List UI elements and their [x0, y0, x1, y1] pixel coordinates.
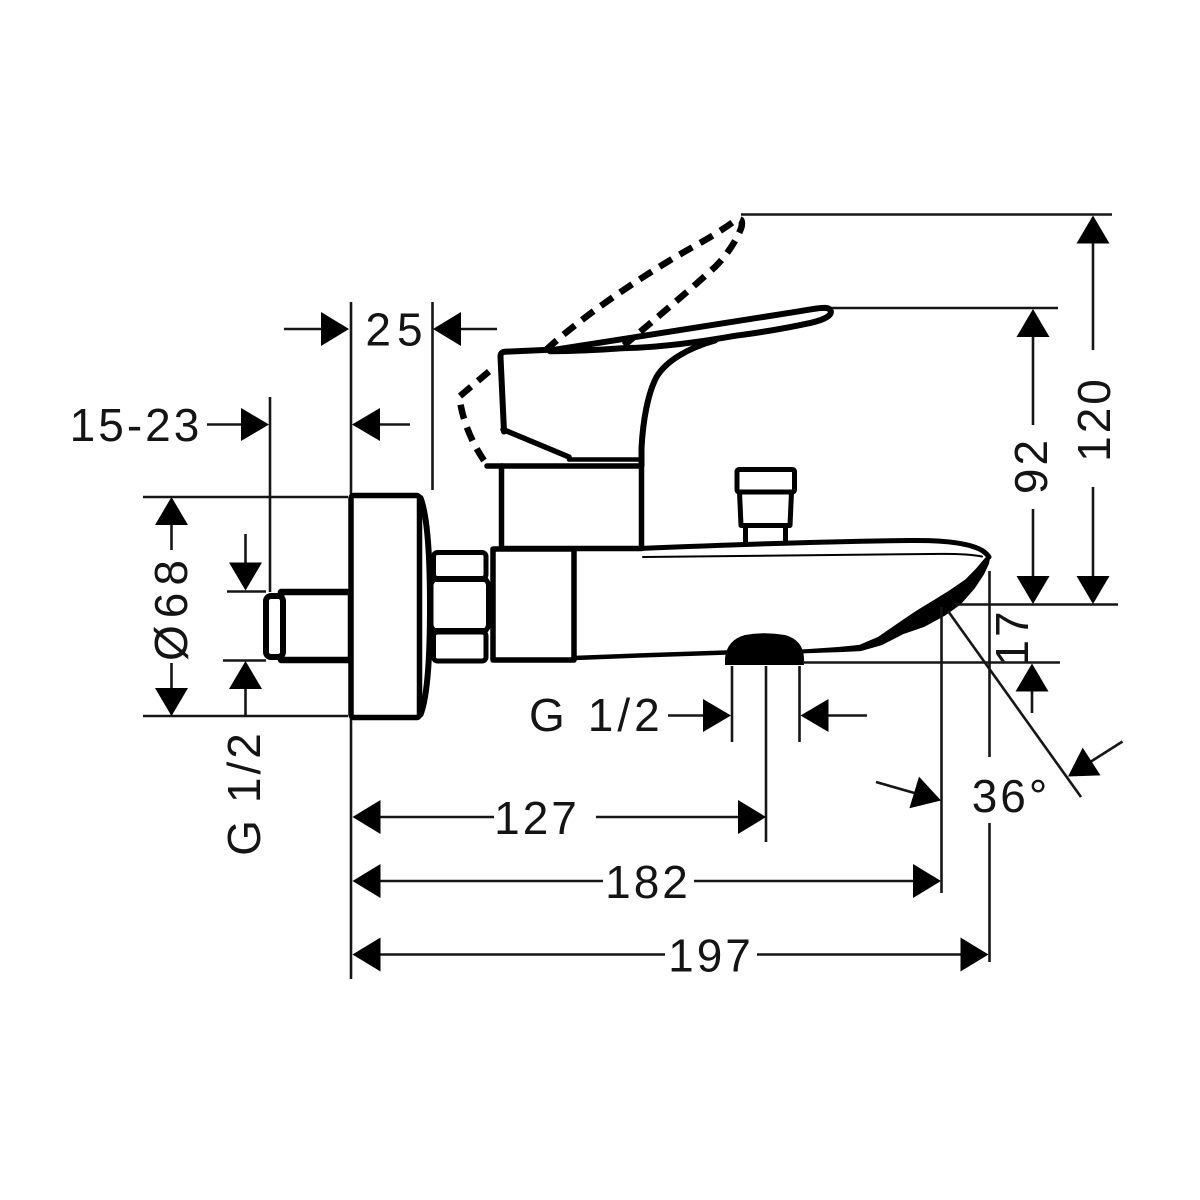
tip-related thin lines — [668, 571, 1123, 962]
arrow 120 bottom — [1077, 576, 1110, 604]
dia68 dimension line segments — [170, 499, 173, 714]
dim 197 line segments — [379, 953, 962, 956]
G12 nipple dimension segments — [244, 534, 247, 716]
faucet drawing group — [266, 219, 990, 717]
dim 92 line segments — [1032, 335, 1035, 578]
union nut top band — [434, 553, 487, 579]
svg-text:G1/2: G1/2 — [218, 730, 270, 856]
wall plane extension line — [350, 302, 353, 979]
G12 aerator dim tails — [668, 714, 867, 717]
raised handle dashed outline — [546, 219, 742, 350]
arrow 127 left — [353, 800, 381, 834]
svg-text:Ø68: Ø68 — [145, 553, 197, 661]
raised handle rear dashed outline — [460, 372, 490, 461]
dim 15-23 tails — [207, 423, 410, 426]
arrow G12 aerator right — [801, 699, 829, 732]
diverter knob mid section — [740, 492, 792, 526]
dim 17 tail — [1031, 690, 1034, 713]
spout bottom reference line y604 — [955, 603, 1118, 606]
svg-text:17: 17 — [986, 608, 1038, 665]
arrow 197 right — [961, 938, 989, 972]
svg-text:15-23: 15-23 — [70, 399, 203, 451]
dim 120 top extension line — [741, 213, 1112, 216]
dim 127 line segments — [379, 816, 740, 819]
svg-text:G1/2: G1/2 — [529, 689, 664, 741]
wall escutcheon flange — [351, 496, 420, 718]
arrow 182 right — [913, 864, 941, 898]
union nut divider lines — [434, 580, 486, 631]
arrow 15-23 left — [241, 408, 269, 441]
svg-text:120: 120 — [1068, 376, 1120, 462]
cartridge collar line — [569, 457, 638, 462]
valve body block — [502, 466, 642, 549]
dim 182 right extension line — [940, 607, 943, 893]
dim 25 tails — [284, 328, 497, 331]
aerator blob — [725, 633, 804, 665]
arrow 25 right — [433, 312, 461, 346]
flange front extension line — [431, 302, 434, 490]
escutcheon slide extension line — [269, 397, 272, 592]
svg-text:197: 197 — [668, 930, 754, 982]
arrow G12 nipple bottom — [229, 661, 262, 689]
arrow dia68 bottom — [155, 688, 188, 716]
dia68 bottom extension line — [143, 715, 348, 718]
union nut middle band — [431, 579, 489, 632]
arrow 92 top — [1017, 309, 1050, 337]
spout top edge — [640, 540, 989, 557]
svg-text:92: 92 — [1005, 437, 1057, 494]
svg-text:25: 25 — [365, 304, 428, 356]
dim 120 line segments — [1092, 242, 1095, 578]
G12 aerator extension lines — [732, 666, 800, 742]
arrow 182 left — [353, 864, 381, 898]
arrow 197 left — [353, 938, 381, 972]
dim 92 top extension line — [830, 307, 1058, 310]
handle cap left edge — [500, 350, 552, 432]
diverter knob stem — [746, 527, 786, 544]
36deg leader tails — [876, 742, 1123, 794]
handle cap bottom slant — [503, 430, 569, 458]
union nut bottom band — [434, 632, 487, 661]
arrow 120 top — [1077, 216, 1110, 244]
arrow 25 left — [321, 312, 349, 346]
arrow 15-23 right — [352, 408, 380, 441]
spout underside tapered crescent — [801, 555, 990, 653]
arrow 127 right — [738, 800, 766, 834]
nipple end cap — [266, 596, 283, 657]
arrow 36deg at vertical line — [909, 777, 941, 809]
dim 182 line segments — [379, 880, 914, 883]
svg-text:182: 182 — [605, 856, 691, 908]
spout top inner line — [643, 554, 982, 557]
arrowheads — [155, 216, 1110, 972]
spout underside left — [574, 653, 727, 659]
svg-text:36°: 36° — [972, 770, 1051, 822]
diverter knob cap — [737, 470, 795, 493]
dia68 top extension line — [143, 496, 348, 499]
flange domed face — [421, 498, 431, 715]
arrow 36deg at diagonal — [1068, 748, 1101, 777]
handle neck curve — [642, 341, 716, 467]
threaded nipple pipe — [281, 592, 351, 660]
arrow dia68 top — [155, 497, 188, 525]
dimension labels — [70, 304, 1120, 982]
arrow G12 aerator left — [703, 699, 731, 732]
aerator bottom reference line y662 — [803, 661, 1060, 664]
arrow 17 bottom — [1016, 664, 1049, 692]
body top stub ledge — [487, 463, 502, 469]
svg-text:127: 127 — [494, 792, 580, 844]
arrow 92 bottom — [1017, 576, 1050, 604]
body inlet block — [493, 549, 574, 660]
dim 197 right extension line — [988, 571, 991, 962]
G12 nipple tick lines — [223, 592, 266, 661]
arrow G12 nipple top — [229, 563, 262, 591]
lever handle blade — [550, 308, 831, 351]
aerator center extension line — [765, 666, 768, 842]
36deg diagonal line — [948, 611, 1081, 797]
